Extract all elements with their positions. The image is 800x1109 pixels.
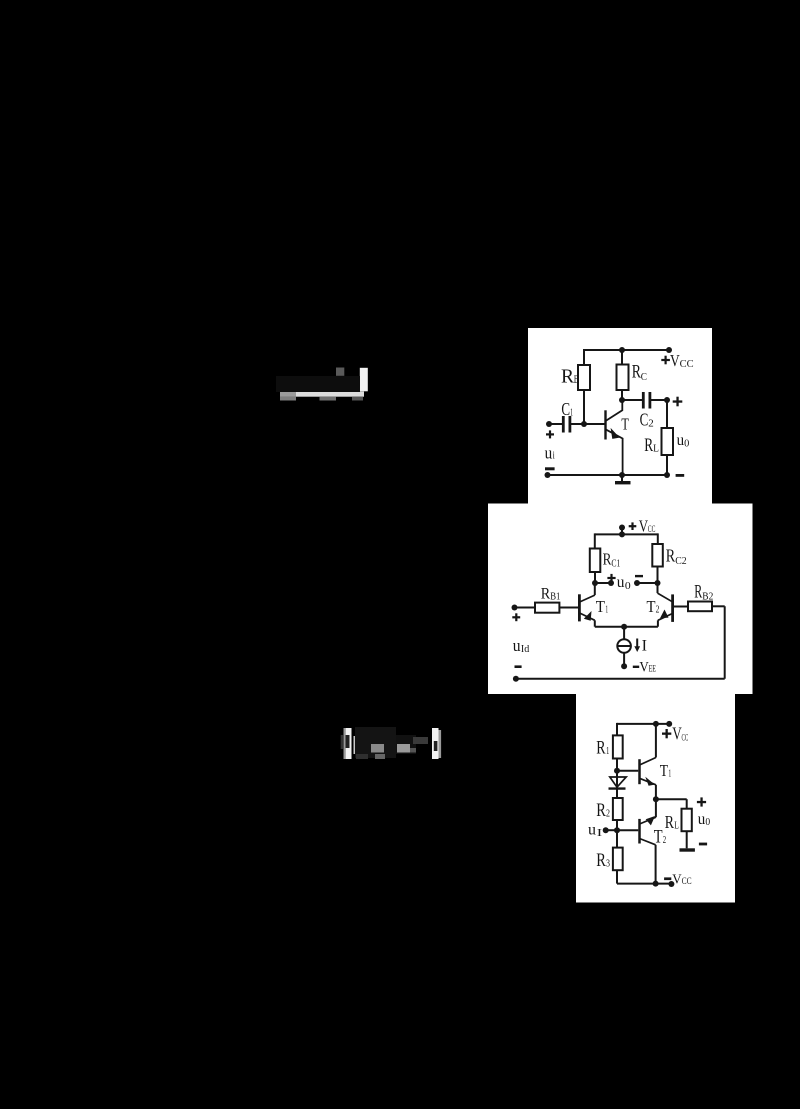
- wire: T2 emitter vertical: [657, 620, 659, 626]
- wire: RL bottom lead: [666, 455, 668, 475]
- resistor RC1: [590, 549, 601, 573]
- wire: T1 collector vertical: [655, 724, 657, 758]
- svg-text:CC: CC: [682, 733, 689, 743]
- wire: T2 emitter diagonal: [658, 614, 673, 621]
- svg-text:1: 1: [570, 407, 573, 419]
- resistor RB1: [535, 603, 559, 613]
- transistor T: [606, 400, 623, 475]
- label - (u0): [635, 575, 643, 577]
- wire: T1 emitter vertical: [594, 620, 596, 626]
- node: rail-RC junction: [619, 347, 625, 353]
- node: RC2 bottom junction: [655, 580, 661, 586]
- svg-text:0: 0: [705, 816, 710, 828]
- transistor T2 emitter arrow: [660, 610, 669, 619]
- node: uI junction: [614, 827, 620, 833]
- wire: RC1 top lead: [594, 533, 596, 548]
- svg-text:T: T: [647, 597, 657, 616]
- svg-text:2: 2: [606, 808, 610, 820]
- current direction arrow: [634, 639, 640, 653]
- wire: +VCC top rail: [584, 349, 669, 351]
- svg-text:0: 0: [625, 581, 631, 592]
- wire: collector T1 to u0 + terminal: [595, 582, 611, 584]
- transistor T1 (panel3): [640, 759, 655, 786]
- svg-text:CC: CC: [648, 524, 656, 534]
- svg-text:B2: B2: [702, 590, 713, 602]
- wire: RB2 to right corner: [712, 605, 725, 607]
- wire: input to C1: [549, 423, 562, 425]
- node: u0 + terminal: [608, 580, 614, 586]
- panel 3 background: [576, 694, 735, 903]
- wire: RC top lead: [621, 349, 623, 365]
- label + (input panel2): [512, 613, 520, 621]
- wire: ground stub: [621, 475, 623, 481]
- node: uI terminal: [603, 827, 609, 833]
- svg-text:B: B: [574, 372, 579, 386]
- node: bottom left: [545, 472, 551, 478]
- node: bottom left terminal (panel2): [513, 676, 519, 682]
- transistor T1 emitter arrow: [584, 611, 592, 621]
- wire: right side vertical: [724, 606, 726, 679]
- svg-text:R: R: [694, 582, 702, 603]
- svg-text:L: L: [653, 443, 659, 455]
- svg-text:R: R: [596, 850, 606, 871]
- wire: RB1 to T1 base: [559, 607, 578, 609]
- resistor RB2: [688, 602, 712, 612]
- resistor RL: [662, 428, 674, 455]
- svg-text:V: V: [672, 872, 681, 887]
- svg-text:I: I: [642, 637, 647, 654]
- svg-text:R: R: [596, 800, 606, 821]
- resistor R2: [613, 798, 623, 820]
- svg-text:2: 2: [648, 418, 654, 430]
- svg-text:L: L: [674, 821, 679, 832]
- svg-text:CC: CC: [680, 359, 694, 370]
- wire: T1 collector vertical: [594, 583, 596, 595]
- label - (input panel2): [515, 665, 522, 668]
- wire: bottom rail: [617, 883, 671, 885]
- wire: RC bottom lead: [621, 390, 623, 401]
- panel 1 background: [528, 328, 712, 504]
- wire: T2 collector vertical: [657, 583, 659, 593]
- label +VCC (panel2): [629, 522, 637, 530]
- svg-text:Id: Id: [521, 644, 530, 655]
- svg-text:2: 2: [656, 605, 660, 616]
- svg-text:V: V: [639, 659, 649, 675]
- wire: T2 collector diagonal: [640, 839, 656, 845]
- wire: T1 collector diagonal: [580, 595, 595, 602]
- svg-text:I: I: [597, 828, 603, 839]
- label - (panel3 output): [699, 843, 707, 846]
- label - (output): [676, 474, 685, 477]
- transistor T2 (panel3): [640, 816, 656, 844]
- wire: T2 emitter diagonal: [640, 817, 656, 824]
- wire: T1 emitter diagonal: [640, 778, 656, 785]
- label +VCC: [661, 356, 670, 365]
- resistor R1: [613, 735, 623, 758]
- svg-text:C2: C2: [675, 556, 686, 567]
- node: +VCC terminal (panel3): [666, 721, 672, 727]
- svg-text:1: 1: [605, 605, 608, 616]
- wire: T2 collector vertical: [655, 845, 657, 884]
- node: top rail junction: [653, 721, 659, 727]
- node: base junction: [581, 421, 587, 427]
- node: common emitter junction: [621, 624, 627, 630]
- wire: RB top lead: [583, 349, 585, 365]
- wire: T1 emitter diagonal: [580, 613, 595, 620]
- wire: collector node to C2: [622, 399, 642, 401]
- svg-text:R: R: [541, 586, 551, 603]
- svg-text:u: u: [545, 443, 553, 462]
- label -VCC: [664, 877, 671, 880]
- node: output junction (panel3): [653, 796, 659, 802]
- svg-text:2: 2: [663, 834, 666, 846]
- wire: C1 to base node: [571, 423, 584, 425]
- svg-text:T: T: [596, 597, 606, 616]
- diode D: [609, 777, 627, 789]
- label + (u0): [607, 574, 615, 582]
- wire: R3 top lead: [616, 830, 618, 847]
- wire: RL top lead: [686, 799, 688, 809]
- svg-text:R: R: [665, 812, 674, 832]
- node: input + terminal (panel2): [512, 605, 518, 611]
- svg-text:1: 1: [606, 745, 609, 757]
- svg-text:V: V: [672, 723, 682, 743]
- wire: R1 top lead: [616, 723, 618, 736]
- background text artifact A: [276, 368, 368, 401]
- wire: +VCC rail: [595, 533, 658, 535]
- capacitor C1: [563, 416, 570, 433]
- wire: diode through lead: [616, 771, 618, 798]
- wire: RL bottom lead: [686, 831, 688, 848]
- node: bottom emitter: [619, 472, 625, 478]
- wire: RB bottom lead: [583, 390, 585, 424]
- label + (panel3 output): [697, 797, 706, 806]
- wire: uI terminal to node: [606, 829, 617, 831]
- resistor RC: [617, 365, 629, 391]
- wire: output to RL: [656, 798, 687, 800]
- ground symbol: [615, 481, 631, 484]
- ground bar (panel3): [680, 848, 695, 851]
- label +VCC (panel3): [662, 729, 671, 738]
- svg-text:R: R: [666, 546, 676, 566]
- node: +VCC terminal: [666, 347, 672, 353]
- svg-text:u: u: [588, 821, 596, 838]
- svg-text:C: C: [641, 371, 647, 383]
- label + (input): [546, 430, 554, 438]
- wire: T2 base wire: [617, 829, 638, 831]
- node: input terminal: [546, 421, 552, 427]
- wire: current source bottom lead: [623, 653, 625, 667]
- svg-text:u: u: [513, 636, 521, 655]
- wire: bottom rail: [547, 474, 667, 476]
- wire: u0 - terminal to collector T2: [637, 582, 658, 584]
- svg-text:3: 3: [606, 858, 610, 870]
- wire: T2 emitter vertical: [655, 799, 657, 817]
- svg-text:EE: EE: [649, 664, 657, 674]
- svg-text:R: R: [596, 737, 606, 758]
- svg-text:B1: B1: [550, 592, 560, 603]
- transistor T2 base bar: [671, 594, 674, 622]
- transistor T1 base bar: [578, 594, 581, 621]
- wire: current source top lead: [623, 627, 625, 640]
- svg-text:C1: C1: [611, 559, 620, 570]
- wire: RC1 bottom lead: [594, 572, 596, 583]
- svg-text:0: 0: [684, 438, 690, 450]
- panel 2 background: [488, 504, 753, 695]
- wire: RC2 top lead: [657, 533, 659, 544]
- wire: common emitter rail: [595, 626, 658, 628]
- wire: RC2 bottom lead: [657, 567, 659, 584]
- svg-text:T: T: [660, 761, 669, 780]
- wire: T2 base to RB2: [674, 606, 688, 608]
- svg-text:1: 1: [668, 769, 671, 780]
- current source I: [617, 639, 631, 653]
- wire: T1 base wire: [617, 770, 638, 772]
- node: T1 base junction: [614, 768, 620, 774]
- wire: top rail: [617, 723, 669, 725]
- node: +VCC terminal dot: [619, 525, 625, 531]
- svg-text:i: i: [553, 449, 555, 461]
- node: -VCC terminal: [668, 881, 674, 887]
- wire: R3 bottom lead: [616, 870, 618, 883]
- wire: RL top lead: [666, 400, 668, 428]
- svg-text:T: T: [621, 415, 629, 434]
- node: -VEE terminal: [621, 663, 627, 669]
- svg-text:u: u: [698, 811, 706, 828]
- wire: C2 to output node: [651, 399, 667, 401]
- wire: T2 collector diagonal: [658, 593, 673, 602]
- svg-text:R: R: [561, 366, 575, 388]
- wire: bottom return rail: [516, 678, 725, 680]
- wire: R2 bottom lead: [616, 820, 618, 830]
- resistor RB: [578, 365, 590, 390]
- svg-text:C: C: [561, 399, 570, 419]
- node: rail junction: [619, 531, 625, 537]
- wire: T1 collector diagonal: [640, 758, 656, 766]
- node: bottom right: [664, 472, 670, 478]
- label -VEE: [633, 666, 639, 668]
- label - (input): [545, 467, 555, 470]
- node: u0 - terminal: [634, 580, 640, 586]
- node: output + terminal: [664, 397, 670, 403]
- svg-text:C: C: [640, 409, 649, 429]
- wire: input to RB1: [515, 607, 536, 609]
- svg-text:T: T: [654, 828, 663, 848]
- node: bottom rail junction: [653, 881, 659, 887]
- background text artifact B: [341, 727, 441, 759]
- resistor RC2: [652, 544, 663, 567]
- wire: T1 emitter vertical: [655, 785, 657, 799]
- resistor R3: [613, 848, 623, 871]
- svg-text:CC: CC: [682, 877, 692, 887]
- wire: base node to transistor base: [584, 423, 605, 425]
- node: RC1 bottom junction: [592, 580, 598, 586]
- svg-text:u: u: [617, 574, 625, 591]
- resistor RL (panel3): [682, 809, 692, 832]
- wire: R1 bottom lead: [616, 759, 618, 771]
- label + (output): [673, 397, 683, 407]
- capacitor C2: [643, 392, 650, 409]
- node: collector junction: [619, 397, 625, 403]
- wire: VCC stub: [621, 528, 623, 535]
